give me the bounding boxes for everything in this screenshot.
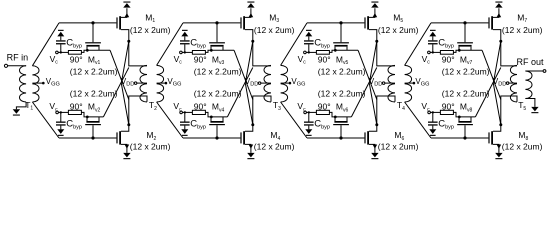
wire T3 secondary to next stage bottom gate: [281, 102, 307, 138]
ground of Cbyp bottom of stage 1: [57, 129, 64, 136]
svg-text:90°: 90°: [442, 54, 455, 64]
transistor M5: [364, 8, 378, 42]
capacitor Cbyp bottom of stage 4: [428, 111, 454, 130]
wire T1 primary to ground: [16, 102, 26, 109]
node VGG at T2 center tap: [157, 77, 182, 88]
wire varactor Mv6 tie to upper node: [351, 68, 376, 117]
wire gate of M8: [431, 137, 488, 139]
wire gate of M6: [307, 137, 364, 139]
wire T5 secondary to ground: [525, 99, 535, 107]
ground of Cbyp bottom of stage 3: [305, 129, 312, 136]
svg-text:RF out: RF out: [517, 57, 545, 67]
port Vc bottom of stage 2: [173, 101, 182, 114]
port Vc bottom of stage 3: [297, 101, 306, 114]
wire varactor Mv2 tie to upper node: [103, 68, 128, 117]
wire drain of M7 to drain of M8: [493, 41, 501, 125]
resistor 90deg bottom of stage 1: [58, 102, 87, 117]
svg-text:90°: 90°: [318, 102, 331, 112]
ground of Cbyp top of stage 2: [181, 30, 188, 37]
wire gate of M2: [59, 137, 116, 139]
transistor M1: [116, 8, 130, 42]
ground at source of M8: [495, 153, 502, 159]
varactor Mv6: [333, 116, 351, 140]
ground at source of M7: [495, 2, 502, 8]
transformer T5 secondary winding: [525, 71, 532, 99]
wire drain of M4 to T3 primary bottom: [253, 96, 271, 125]
svg-text:(12 x 2.2um): (12 x 2.2um): [70, 88, 118, 98]
svg-text:90°: 90°: [194, 102, 207, 112]
capacitor Cbyp bottom of stage 3: [304, 111, 330, 130]
port RF out: [517, 57, 546, 73]
svg-text:(12 x 2um): (12 x 2um): [130, 142, 171, 152]
wire T5 secondary to RF out: [525, 70, 543, 72]
transistor M6: [364, 123, 378, 153]
transformer T1 secondary winding: [32, 66, 39, 102]
svg-text:90°: 90°: [194, 54, 207, 64]
wire varactor Mv4 tie to upper node: [227, 68, 252, 117]
wire drain of M1 to drain of M2: [121, 41, 129, 125]
wire T1 secondary to M2 gate: [32, 102, 59, 138]
svg-text:(12 x 2.2um): (12 x 2.2um): [70, 66, 118, 76]
wire T4 secondary to next stage bottom gate: [405, 102, 431, 138]
capacitor Cbyp top of stage 1: [56, 36, 82, 53]
svg-text:(12 x 2.2um): (12 x 2.2um): [442, 66, 490, 76]
svg-text:(12 x 2.2um): (12 x 2.2um): [318, 88, 366, 98]
wire drain of M5 to drain of M6: [369, 41, 377, 125]
port Vc top of stage 4: [422, 51, 431, 66]
wire T1 secondary to M1 gate: [32, 23, 59, 66]
svg-text:90°: 90°: [70, 54, 83, 64]
wire T2 secondary to next stage bottom gate: [157, 102, 183, 138]
wire T3 secondary to next stage top gate: [281, 23, 307, 66]
node VGG at T4 center tap: [405, 77, 430, 88]
transformer T1 primary winding: [20, 66, 27, 102]
varactor Mv5: [333, 21, 358, 51]
transistor M2: [116, 123, 130, 153]
wire varactor Mv7 tie to lower node: [482, 50, 501, 99]
capacitor Cbyp bottom of stage 1: [56, 111, 82, 130]
ground of Cbyp top of stage 3: [305, 30, 312, 37]
node VDD at T3 center tap: [245, 77, 271, 88]
resistor 90deg bottom of stage 3: [306, 102, 335, 117]
wire drain of M3 to T3 primary top: [253, 41, 271, 66]
ground at source of M3: [247, 2, 254, 8]
capacitor Cbyp top of stage 4: [428, 36, 454, 53]
node VDD at T5 center tap: [493, 77, 517, 88]
transformer T5 primary winding: [510, 65, 517, 102]
port Vc top of stage 2: [174, 51, 183, 66]
wire drain of M8 to T5 primary bottom: [501, 96, 517, 125]
transformer T3 primary winding: [264, 65, 271, 102]
svg-text:RF in: RF in: [7, 52, 29, 62]
wire gate of M7: [431, 22, 488, 24]
svg-text:(12 x 2.2um): (12 x 2.2um): [194, 66, 242, 76]
resistor 90deg bottom of stage 4: [430, 102, 459, 117]
transistor M8: [488, 123, 502, 153]
wire drain of M3 to drain of M4: [245, 41, 253, 125]
ground of T5 secondary: [531, 107, 538, 113]
wire T2 secondary to next stage top gate: [157, 23, 183, 66]
ground at source of M1: [123, 2, 130, 8]
varactor Mv4: [209, 116, 227, 140]
ground at source of M2: [123, 153, 130, 159]
wire T4 secondary to next stage top gate: [405, 23, 431, 66]
wire drain of M6 to T4 primary bottom: [377, 96, 395, 125]
node VGG at T3 center tap: [281, 77, 306, 88]
capacitor Cbyp top of stage 3: [304, 36, 330, 53]
svg-text:(12 x 2.2um): (12 x 2.2um): [318, 66, 366, 76]
svg-text:(12 x 2um): (12 x 2um): [254, 25, 295, 35]
svg-text:(12 x 2.2um): (12 x 2.2um): [442, 88, 490, 98]
varactor Mv3: [209, 21, 234, 51]
wire gate of M4: [183, 137, 240, 139]
transformer T3 secondary winding: [281, 65, 288, 102]
varactor Mv7: [457, 21, 482, 51]
svg-text:90°: 90°: [70, 102, 83, 112]
transformer T4 primary winding: [388, 65, 395, 102]
port Vc top of stage 3: [298, 51, 307, 66]
ground of T1 primary: [13, 109, 20, 115]
capacitor Cbyp top of stage 2: [180, 36, 206, 53]
ground at source of M5: [371, 2, 378, 8]
varactor Mv1: [85, 21, 110, 51]
ground of Cbyp bottom of stage 2: [181, 129, 188, 136]
transistor M4: [240, 123, 254, 153]
resistor 90deg top of stage 1: [58, 50, 87, 64]
resistor 90deg top of stage 2: [182, 50, 211, 64]
wire drain of M1 to T2 primary top: [129, 41, 147, 66]
svg-text:(12 x 2um): (12 x 2um): [254, 142, 295, 152]
svg-text:(12 x 2um): (12 x 2um): [378, 142, 419, 152]
node VGG at T1 center tap: [32, 77, 59, 88]
svg-text:(12 x 2.2um): (12 x 2.2um): [194, 88, 242, 98]
wire varactor Mv3 tie to lower node: [234, 50, 253, 99]
wire drain of M5 to T4 primary top: [377, 41, 395, 66]
transistor M7: [488, 8, 502, 42]
wire varactor Mv1 tie to lower node: [110, 50, 129, 99]
ground of Cbyp top of stage 1: [57, 30, 64, 37]
transformer T2 secondary winding: [157, 65, 164, 102]
wire varactor Mv5 tie to lower node: [358, 50, 377, 99]
wire gate of M5: [307, 22, 364, 24]
ground at source of M4: [247, 153, 254, 159]
svg-text:(12 x 2um): (12 x 2um): [130, 25, 171, 35]
port Vc top of stage 1: [50, 51, 59, 66]
port Vc bottom of stage 4: [421, 101, 430, 114]
wire gate of M3: [183, 22, 240, 24]
transformer T2 primary winding: [140, 65, 147, 102]
node VDD at T2 center tap: [121, 77, 147, 88]
svg-text:(12 x 2um): (12 x 2um): [378, 25, 419, 35]
transistor M3: [240, 8, 254, 42]
wire drain of M2 to T2 primary bottom: [129, 96, 147, 125]
node VDD at T4 center tap: [369, 77, 395, 88]
port Vc bottom of stage 1: [49, 101, 58, 114]
port RF in: [4, 52, 28, 67]
svg-text:90°: 90°: [442, 102, 455, 112]
varactor Mv8: [457, 116, 475, 140]
ground at source of M6: [371, 153, 378, 159]
ground of Cbyp top of stage 4: [429, 30, 436, 37]
svg-text:(12 x 2um): (12 x 2um): [502, 142, 543, 152]
ground of Cbyp bottom of stage 4: [429, 129, 436, 136]
capacitor Cbyp bottom of stage 2: [180, 111, 206, 130]
wire varactor Mv8 tie to upper node: [475, 68, 500, 117]
transformer T4 secondary winding: [405, 65, 412, 102]
wire gate of M1: [59, 22, 116, 24]
resistor 90deg top of stage 3: [306, 50, 335, 64]
wire drain of M7 to T5 primary top: [501, 41, 517, 66]
resistor 90deg bottom of stage 2: [182, 102, 211, 117]
svg-text:(12 x 2um): (12 x 2um): [502, 25, 543, 35]
wire RF in to T1 primary: [8, 65, 27, 67]
resistor 90deg top of stage 4: [430, 50, 459, 64]
varactor Mv2: [85, 116, 103, 140]
svg-text:90°: 90°: [318, 54, 331, 64]
